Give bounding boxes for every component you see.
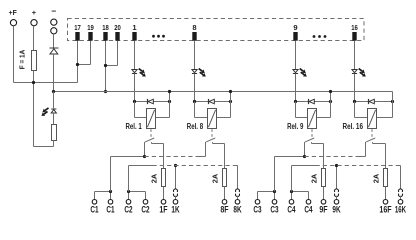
freewheel diode D9 xyxy=(308,99,310,104)
junction C4 pair xyxy=(290,190,293,193)
svg-text:1F: 1F xyxy=(159,205,168,215)
svg-text:+: + xyxy=(32,8,37,17)
bus C1 solid segment to Rel. 1 common xyxy=(111,156,145,158)
terminal 1K circle xyxy=(173,200,178,205)
svg-text:C3: C3 xyxy=(253,205,261,215)
junction coil line right Rel. 9 xyxy=(329,100,332,103)
terminal pair link C3 xyxy=(258,191,275,193)
wire pin 16 to LED xyxy=(354,41,356,70)
disconnect plug 9K xyxy=(335,189,339,192)
coil top line Rel. 16 xyxy=(355,101,393,103)
terminal 8F circle xyxy=(222,200,227,205)
svg-text:C1: C1 xyxy=(106,205,114,215)
junction pins 17/19 xyxy=(76,63,79,66)
left rail Rel. 9 to coil xyxy=(295,102,297,118)
wire diode D1 to negative bus xyxy=(53,54,55,92)
connector X1 dashed outline xyxy=(68,19,365,41)
wire right rail Rel. 9 to negative bus xyxy=(330,92,332,102)
mechanical link Rel. 8 xyxy=(211,129,213,137)
junction C3 pair xyxy=(273,190,276,193)
status LED Rel. 9 xyxy=(293,70,298,73)
svg-text:2A: 2A xyxy=(210,173,219,183)
svg-text:19: 19 xyxy=(87,23,94,32)
svg-text:8K: 8K xyxy=(233,205,242,215)
contact common wire Rel. 16 xyxy=(365,142,367,157)
terminal C1 circle left xyxy=(92,200,97,205)
pin 16 contact xyxy=(352,32,356,41)
terminal + circle xyxy=(31,20,37,26)
terminal C2 circle right xyxy=(143,200,148,205)
svg-text:C2: C2 xyxy=(141,205,149,215)
svg-text:2A: 2A xyxy=(371,173,380,183)
right rail Rel. 16 to coil xyxy=(392,102,394,118)
fuse 2A for 9F xyxy=(322,169,326,187)
contact fixed stub Rel. 9 xyxy=(311,142,313,143)
wire K bus to plug 1K xyxy=(175,166,177,189)
wire pin 17 to positive rail xyxy=(77,41,79,83)
svg-text:18: 18 xyxy=(102,23,109,32)
left rail Rel. 1 to coil xyxy=(134,102,136,118)
svg-text:1K: 1K xyxy=(171,205,180,215)
terminal 16F circle xyxy=(383,200,388,205)
junction coil line left Rel. 8 xyxy=(193,100,196,103)
svg-text:2A: 2A xyxy=(149,173,158,183)
status LED Rel. 1 xyxy=(132,70,137,73)
svg-text:Rel. 8: Rel. 8 xyxy=(187,122,204,131)
negative bus wire xyxy=(54,91,393,93)
pin 17 contact xyxy=(75,32,79,41)
positive rail wire xyxy=(14,82,78,84)
junction 9K on K bus xyxy=(335,164,338,167)
bus C3 dashed segment to Rel. 16 common xyxy=(305,156,360,158)
bus C2/K dashed segment to 8K xyxy=(153,165,234,167)
wire fuse to terminal 16F xyxy=(385,187,387,200)
bus C3 solid segment to Rel. 9 common xyxy=(275,156,305,158)
right rail Rel. 8 to coil xyxy=(230,102,232,118)
contact fixed stub Rel. 8 xyxy=(212,142,214,143)
terminal 9F circle xyxy=(321,200,326,205)
wire pin 18 to negative bus xyxy=(105,41,107,92)
svg-text:9: 9 xyxy=(293,23,297,32)
pin 8 contact xyxy=(192,32,196,41)
freewheel diode D16 xyxy=(368,99,370,104)
wire LED down to coil line (crosses negative bus) xyxy=(194,74,196,102)
svg-text:8: 8 xyxy=(192,23,196,32)
relay coil Rel. 9 xyxy=(308,109,317,129)
svg-text:F = 1A: F = 1A xyxy=(20,50,27,70)
svg-text:16F: 16F xyxy=(379,205,392,215)
contact common wire Rel. 1 xyxy=(144,142,146,157)
junction Rel. 1 common on C1 bus xyxy=(143,155,146,158)
terminal - circle lower xyxy=(51,28,57,34)
status LED Rel. 8 xyxy=(192,70,197,73)
svg-text:C3: C3 xyxy=(270,205,278,215)
freewheel diode D8 xyxy=(208,99,210,104)
terminal pair link C2 xyxy=(129,191,146,193)
freewheel diode D1 xyxy=(147,99,149,104)
wire C2 up to bus xyxy=(128,166,130,192)
wire contact to fuse 1F xyxy=(152,143,164,145)
ellipsis pins 2..7 xyxy=(152,35,155,38)
wire contact to fuse 8F xyxy=(213,143,225,145)
diode D1 reverse-polarity xyxy=(50,47,59,49)
status LED Rel. 16 xyxy=(352,70,357,73)
fuse F1 body xyxy=(32,51,37,71)
disconnect plug 16K xyxy=(399,189,403,192)
terminal pair link C1 xyxy=(95,191,111,193)
terminal +F circle xyxy=(10,20,16,26)
wire resistor R1 to fused rail xyxy=(53,141,55,147)
right rail Rel. 9 to coil xyxy=(330,102,332,118)
wire pin 20 joins pin 18 xyxy=(117,41,119,66)
wire + down to fuse xyxy=(33,26,35,51)
contact common wire Rel. 9 xyxy=(304,142,306,157)
mechanical link Rel. 16 xyxy=(371,129,373,137)
fuse 2A for 1F xyxy=(162,169,166,187)
svg-text:−: − xyxy=(51,6,56,16)
junction coil line right Rel. 1 xyxy=(168,100,171,103)
disconnect plug 1K xyxy=(173,189,177,192)
wire fuse to terminal 9F xyxy=(323,187,325,200)
junction right rail / negative bus Rel. 9 xyxy=(329,90,332,93)
terminal C3 circle left xyxy=(255,200,260,205)
left rail Rel. 16 to coil xyxy=(354,102,356,118)
svg-text:20: 20 xyxy=(114,23,121,32)
svg-text:9F: 9F xyxy=(319,205,328,215)
terminal C4 circle right xyxy=(306,200,311,205)
pin 9 contact xyxy=(293,32,297,41)
contact blade Rel. 16 xyxy=(366,138,375,142)
relay coil Rel. 16 xyxy=(368,109,377,129)
svg-text:16: 16 xyxy=(351,23,358,32)
junction C2 pair xyxy=(127,190,130,193)
terminal C1 circle right xyxy=(108,200,113,205)
svg-text:Rel. 9: Rel. 9 xyxy=(287,122,304,131)
mechanical link Rel. 1 xyxy=(150,129,152,137)
wire K bus to plug 9K xyxy=(336,166,338,189)
wire fuse down to indicator branch xyxy=(33,71,35,147)
wire C1 up to bus xyxy=(110,157,112,192)
pin 20 contact xyxy=(115,32,119,41)
resistor R1 xyxy=(52,125,57,141)
wire pin 8 to LED xyxy=(194,41,196,70)
junction right rail / negative bus Rel. 1 xyxy=(168,90,171,93)
wire K bus to plug 8K xyxy=(237,166,239,189)
wire +F down to positive rail xyxy=(13,26,15,83)
wire pin 9 to LED xyxy=(295,41,297,70)
svg-text:C4: C4 xyxy=(304,205,312,215)
svg-text:8F: 8F xyxy=(220,205,229,215)
terminal 1F circle xyxy=(161,200,166,205)
terminal - circle upper xyxy=(51,19,57,25)
junction diode branch / negative bus xyxy=(52,90,55,93)
pin 1 contact xyxy=(132,32,136,41)
junction coil line right Rel. 16 xyxy=(391,100,394,103)
wire pin 19 joins pin 17 xyxy=(90,41,92,65)
wire fuse to terminal 8F xyxy=(224,187,226,200)
ellipsis pins 10..15 xyxy=(313,35,316,38)
svg-text:C4: C4 xyxy=(287,205,295,215)
svg-text:+F: +F xyxy=(9,8,18,17)
svg-text:C1: C1 xyxy=(90,205,98,215)
wire LED down to coil line (crosses negative bus) xyxy=(295,74,297,102)
terminal C3 circle right xyxy=(272,200,277,205)
junction coil line left Rel. 9 xyxy=(294,100,297,103)
wire C4 up to bus xyxy=(291,166,293,192)
wire LED down to coil line (crosses negative bus) xyxy=(134,74,136,102)
pin 19 contact xyxy=(88,32,92,41)
wire pin 1 to LED xyxy=(134,41,136,70)
wire contact to fuse 9F xyxy=(312,143,324,145)
coil top line Rel. 9 xyxy=(296,101,331,103)
contact fixed stub Rel. 16 xyxy=(372,142,374,143)
relay coil Rel. 8 xyxy=(208,109,217,129)
contact common wire Rel. 8 xyxy=(205,142,207,157)
junction 1K on K bus xyxy=(174,164,177,167)
wire right rail Rel. 8 to negative bus xyxy=(230,92,232,102)
terminal C4 circle left xyxy=(289,200,294,205)
wire - down to diode D1 xyxy=(53,34,55,48)
junction C1 pair xyxy=(109,190,112,193)
terminal C2 circle left xyxy=(126,200,131,205)
terminal 9K circle xyxy=(334,200,339,205)
right rail Rel. 1 to coil xyxy=(169,102,171,118)
junction coil line right Rel. 8 xyxy=(229,100,232,103)
junction right rail / negative bus Rel. 8 xyxy=(229,90,232,93)
wire K bus to plug 16K xyxy=(400,166,402,189)
bus C4/K solid segment xyxy=(292,165,316,167)
junction Rel. 9 common on C3 bus xyxy=(303,155,306,158)
terminal 8K circle xyxy=(235,200,240,205)
svg-text:C2: C2 xyxy=(124,205,132,215)
pin 18 contact xyxy=(103,32,107,41)
power LED D2 xyxy=(51,108,56,110)
wire fuse to terminal 1F xyxy=(163,187,165,200)
contact blade Rel. 1 xyxy=(145,138,154,142)
wire LED down to coil line (crosses negative bus) xyxy=(354,74,356,102)
bus C4/K dashed segment to 16K xyxy=(316,165,397,167)
bus C2/K solid segment xyxy=(129,165,153,167)
wire negative bus to power LED xyxy=(53,92,55,110)
terminal pair link C4 xyxy=(292,191,309,193)
wire right rail Rel. 1 to negative bus xyxy=(169,92,171,102)
contact blade Rel. 9 xyxy=(305,138,314,142)
junction pin 18 line / negative bus xyxy=(104,90,107,93)
coil top line Rel. 8 xyxy=(195,101,231,103)
wire power LED to resistor R1 xyxy=(53,113,55,125)
fuse 2A for 16F xyxy=(384,169,388,187)
junction fuse / positive rail xyxy=(32,81,35,84)
svg-text:2A: 2A xyxy=(309,173,318,183)
svg-text:Rel. 1: Rel. 1 xyxy=(126,122,143,131)
bus C1 dashed segment to Rel. 8 common xyxy=(145,156,198,158)
mechanical link Rel. 9 xyxy=(311,129,313,137)
junction coil line left Rel. 16 xyxy=(353,100,356,103)
wire contact to fuse 16F xyxy=(373,143,386,145)
junction coil line left Rel. 1 xyxy=(133,100,136,103)
junction pins 18/20 xyxy=(104,64,107,67)
wire right rail Rel. 16 to negative bus xyxy=(392,92,394,102)
coil top line Rel. 1 xyxy=(135,101,170,103)
wire C3 up to bus xyxy=(274,157,276,192)
svg-text:17: 17 xyxy=(74,23,81,32)
contact fixed stub Rel. 1 xyxy=(151,142,153,143)
disconnect plug 8K xyxy=(236,189,240,192)
relay coil Rel. 1 xyxy=(147,109,156,129)
left rail Rel. 8 to coil xyxy=(194,102,196,118)
svg-text:16K: 16K xyxy=(395,205,407,215)
fuse 2A for 8F xyxy=(223,169,227,187)
svg-text:Rel. 16: Rel. 16 xyxy=(343,122,364,131)
terminal 16K circle xyxy=(398,200,403,205)
svg-text:9K: 9K xyxy=(332,205,341,215)
contact blade Rel. 8 xyxy=(206,138,215,142)
